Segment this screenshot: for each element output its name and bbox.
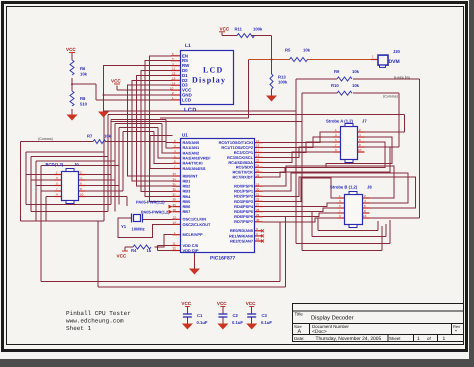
svg-text:RD7/PSP7: RD7/PSP7 [234, 219, 253, 224]
svg-text:26: 26 [256, 173, 260, 177]
svg-text:18: 18 [256, 154, 260, 158]
svg-text:PIC16F877: PIC16F877 [210, 256, 236, 262]
svg-text:100k: 100k [278, 80, 288, 85]
svg-text:U1: U1 [182, 133, 188, 138]
svg-text:VCC: VCC [181, 301, 191, 306]
svg-text:PA05-PWR(1,2): PA05-PWR(1,2) [136, 200, 165, 205]
svg-text:1: 1 [417, 336, 420, 342]
svg-text:A: A [298, 329, 302, 335]
svg-text:DVM: DVM [389, 59, 400, 65]
svg-text:10k: 10k [80, 72, 88, 77]
svg-text:11: 11 [172, 67, 175, 71]
svg-text:VCC: VCC [111, 79, 121, 84]
svg-text:12: 12 [172, 72, 176, 76]
svg-text:510: 510 [80, 102, 88, 107]
svg-text:VCC: VCC [217, 301, 227, 306]
svg-text:14: 14 [172, 81, 176, 85]
svg-text:C2: C2 [233, 313, 239, 318]
svg-text:OSC2/CLKOUT: OSC2/CLKOUT [183, 222, 212, 227]
svg-text:J0: J0 [74, 162, 79, 167]
svg-text:VCC: VCC [66, 47, 76, 52]
svg-text:10k: 10k [104, 134, 112, 139]
svg-text:J20: J20 [393, 49, 401, 54]
svg-text:15: 15 [256, 139, 260, 143]
svg-text:PA05-PWR(1,2): PA05-PWR(1,2) [141, 210, 170, 215]
svg-text:21: 21 [256, 193, 260, 197]
svg-text:www.edcheung.com: www.edcheung.com [66, 318, 124, 325]
svg-text:0.1uF: 0.1uF [232, 320, 243, 325]
svg-text:R5: R5 [285, 48, 291, 53]
svg-text:36: 36 [173, 188, 177, 192]
svg-text:Display Decoder: Display Decoder [311, 315, 354, 322]
svg-text:R10: R10 [331, 83, 339, 88]
svg-text:Title: Title [295, 312, 304, 317]
svg-text:Strobe A (1,2): Strobe A (1,2) [326, 119, 354, 124]
svg-text:L1: L1 [185, 43, 191, 49]
svg-text:20: 20 [256, 187, 260, 191]
svg-text:32: 32 [173, 247, 177, 251]
svg-text:33: 33 [173, 172, 177, 176]
svg-text:*: * [455, 329, 457, 335]
svg-text:R11: R11 [235, 26, 243, 31]
svg-text:BCD(1,2): BCD(1,2) [46, 162, 64, 167]
svg-text:23: 23 [256, 159, 260, 163]
svg-text:10k: 10k [303, 48, 311, 53]
svg-text:LCD: LCD [203, 66, 224, 75]
svg-text:28: 28 [256, 208, 260, 212]
svg-text:19: 19 [256, 182, 260, 186]
svg-text:(Comms): (Comms) [383, 95, 398, 99]
svg-text:6-wire brg: 6-wire brg [394, 75, 410, 79]
svg-text:R8: R8 [80, 96, 86, 101]
svg-text:C3: C3 [262, 313, 268, 318]
svg-text:<Doc>: <Doc> [312, 329, 327, 335]
svg-text:Display: Display [192, 76, 226, 85]
svg-text:LCD: LCD [184, 108, 197, 114]
svg-text:LCD: LCD [182, 97, 191, 102]
svg-text:10: 10 [363, 214, 367, 218]
svg-text:1k: 1k [147, 248, 152, 253]
svg-text:10: 10 [256, 237, 260, 241]
svg-text:Thursday, November 24, 2005: Thursday, November 24, 2005 [316, 336, 382, 342]
svg-text:0.1uF: 0.1uF [261, 320, 272, 325]
svg-text:100k: 100k [253, 26, 263, 31]
svg-text:MCLR/VPP: MCLR/VPP [183, 232, 204, 237]
svg-text:0.1uF: 0.1uF [197, 320, 208, 325]
svg-text:10: 10 [358, 148, 362, 152]
svg-text:J8: J8 [367, 185, 372, 190]
svg-text:RE2/CS/AN7: RE2/CS/AN7 [230, 238, 253, 243]
svg-text:10MHz: 10MHz [132, 226, 145, 231]
svg-text:10: 10 [80, 193, 84, 197]
svg-text:29: 29 [256, 213, 260, 217]
svg-text:10k: 10k [352, 69, 360, 74]
svg-text:R7: R7 [87, 134, 93, 139]
svg-text:VDD O/P: VDD O/P [183, 248, 199, 253]
svg-text:VCC: VCC [117, 254, 127, 259]
svg-text:C1: C1 [197, 313, 203, 318]
svg-text:Strobe B (1,2): Strobe B (1,2) [330, 185, 358, 190]
svg-text:10k: 10k [352, 83, 360, 88]
svg-text:11: 11 [173, 242, 176, 246]
svg-text:R4: R4 [131, 248, 137, 253]
svg-text:Pinball CPU Tester: Pinball CPU Tester [66, 310, 131, 317]
svg-text:VCC: VCC [220, 26, 230, 31]
svg-text:38: 38 [173, 198, 177, 202]
svg-text:10: 10 [170, 86, 174, 90]
svg-text:34: 34 [173, 177, 177, 181]
svg-text:Date:: Date: [294, 336, 305, 341]
svg-text:Sheet: Sheet [389, 336, 401, 341]
svg-text:13: 13 [173, 216, 177, 220]
svg-text:J7: J7 [362, 119, 367, 124]
svg-text:16: 16 [256, 144, 260, 148]
svg-text:35: 35 [173, 182, 177, 186]
svg-text:39: 39 [173, 203, 177, 207]
svg-text:VCC: VCC [246, 301, 256, 306]
svg-text:RA5/AN4/SS: RA5/AN4/SS [183, 166, 206, 171]
svg-text:(Comms): (Comms) [38, 137, 53, 141]
svg-text:25: 25 [256, 169, 260, 173]
svg-text:30: 30 [256, 218, 260, 222]
svg-text:27: 27 [256, 203, 260, 207]
svg-text:13: 13 [172, 77, 176, 81]
svg-text:24: 24 [256, 164, 260, 168]
svg-text:Sheet 1: Sheet 1 [66, 325, 92, 332]
svg-text:R6: R6 [80, 66, 86, 71]
svg-text:1: 1 [443, 336, 446, 342]
svg-text:17: 17 [256, 149, 260, 153]
svg-text:22: 22 [256, 198, 260, 202]
svg-text:37: 37 [173, 193, 177, 197]
svg-text:RB7: RB7 [183, 209, 191, 214]
svg-text:RC7/RX/DT: RC7/RX/DT [232, 175, 253, 180]
svg-text:Y1: Y1 [121, 224, 127, 229]
svg-text:R9: R9 [334, 69, 340, 74]
svg-text:14: 14 [173, 221, 177, 225]
svg-text:40: 40 [173, 208, 177, 212]
